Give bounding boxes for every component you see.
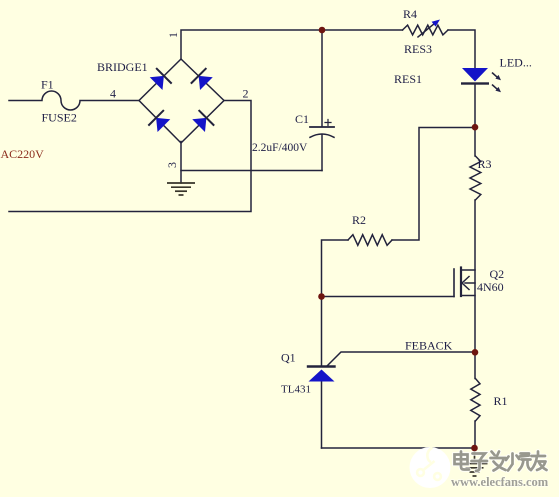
svg-text:Q1: Q1 — [281, 351, 296, 365]
svg-text:R3: R3 — [478, 157, 492, 171]
svg-text:AC220V: AC220V — [1, 147, 45, 161]
svg-text:RES3: RES3 — [404, 42, 432, 56]
svg-text:FUSE2: FUSE2 — [42, 111, 77, 125]
svg-text:FEBACK: FEBACK — [405, 339, 453, 353]
svg-text:R2: R2 — [352, 213, 366, 227]
svg-text:LED...: LED... — [500, 56, 532, 70]
svg-text:R4: R4 — [403, 7, 417, 21]
svg-text:BRIDGE1: BRIDGE1 — [97, 60, 148, 74]
svg-text:TL431: TL431 — [281, 384, 311, 396]
svg-text:C1: C1 — [295, 112, 309, 126]
svg-text:4: 4 — [110, 87, 116, 101]
svg-text:R1: R1 — [494, 394, 508, 408]
svg-text:RES1: RES1 — [394, 72, 422, 86]
svg-text:2: 2 — [243, 87, 249, 101]
svg-text:Q2: Q2 — [490, 267, 505, 281]
svg-text:3: 3 — [165, 162, 179, 168]
svg-text:F1: F1 — [41, 78, 54, 92]
svg-text:1: 1 — [166, 32, 180, 38]
svg-text:4N60: 4N60 — [477, 280, 504, 294]
svg-text:2.2uF/400V: 2.2uF/400V — [252, 142, 308, 154]
svg-text:www.elecfans.com: www.elecfans.com — [451, 475, 549, 489]
